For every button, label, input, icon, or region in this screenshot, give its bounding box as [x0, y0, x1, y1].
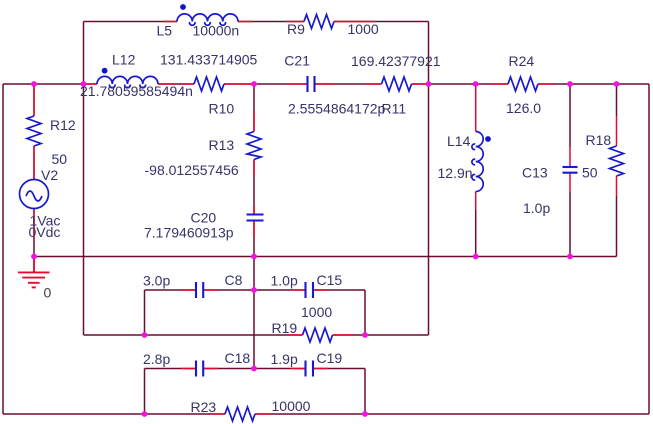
- svg-text:C15: C15: [317, 272, 343, 288]
- junction bottom x144: [142, 411, 148, 417]
- svg-text:131.433714905: 131.433714905: [160, 52, 258, 68]
- svg-text:0: 0: [44, 285, 52, 301]
- ground: [33, 257, 35, 272]
- svg-text:50: 50: [52, 151, 68, 167]
- pin R24 left: [490, 83, 508, 85]
- svg-text:10000: 10000: [272, 398, 311, 414]
- pin C13 top: [569, 147, 571, 167]
- wire C15 branch vertical x365 upper: [364, 290, 366, 335]
- wire C13 branch upper: [569, 84, 571, 147]
- pin L5 right: [238, 21, 253, 23]
- svg-text:L12: L12: [112, 52, 136, 68]
- pin L12 right: [158, 83, 175, 85]
- svg-text:21.78059585494n: 21.78059585494n: [80, 83, 193, 99]
- wire source branch x34 lower: [33, 209, 35, 257]
- pin L12 left: [85, 83, 97, 85]
- wire bottom rail right: [255, 413, 649, 415]
- pin C15 left: [291, 289, 306, 291]
- svg-text:C21: C21: [284, 53, 310, 69]
- junction row B x475: [473, 81, 479, 87]
- svg-text:R9: R9: [287, 21, 305, 37]
- capacitor C15: [304, 282, 306, 298]
- svg-text:R10: R10: [209, 101, 235, 117]
- wire C19 branch vertical x365 lower: [364, 369, 366, 415]
- wire row B seg 2: [158, 83, 194, 85]
- pin R11 right: [412, 83, 429, 85]
- pin C19 right: [313, 368, 328, 370]
- pin C20 top: [253, 206, 255, 215]
- svg-text:7.179460913p: 7.179460913p: [144, 225, 234, 241]
- wire L14 branch lower: [475, 210, 477, 257]
- pin R18 bottom: [616, 176, 618, 196]
- pin C15 right: [313, 289, 328, 291]
- junction C18 row x254: [251, 366, 257, 372]
- wire C18 branch vertical x144 lower: [144, 369, 146, 415]
- pin R23 left: [210, 413, 225, 415]
- wire R18 branch upper: [616, 84, 618, 116]
- junction row B x254: [251, 81, 257, 87]
- svg-text:0Vdc: 0Vdc: [29, 224, 61, 240]
- wire right edge vertical: [648, 84, 650, 414]
- svg-text:50: 50: [582, 165, 598, 181]
- pin C21 left: [288, 83, 308, 85]
- svg-text:R24: R24: [509, 53, 535, 69]
- capacitor C8: [195, 282, 197, 298]
- pin R18 top: [616, 116, 618, 146]
- wire C20 vertical lower: [253, 221, 255, 369]
- capacitor C18: [195, 361, 197, 377]
- inductor L14: [476, 132, 484, 192]
- wire C18 row seg 2: [203, 368, 305, 370]
- wire row B seg 6: [538, 83, 649, 85]
- junction row B x616: [614, 81, 620, 87]
- wire box left vertical x83: [83, 22, 85, 336]
- pin L14 bottom: [475, 192, 477, 211]
- junction mid x254: [251, 254, 257, 260]
- svg-text:1.9p: 1.9p: [271, 351, 298, 367]
- pin R12 bottom to V2: [33, 146, 35, 180]
- capacitor C21: [306, 76, 308, 92]
- wire left edge vertical: [2, 84, 4, 414]
- wire top rail mid segment: [238, 21, 304, 23]
- wire row B seg 4: [315, 83, 382, 85]
- wire top rail left segment: [84, 21, 178, 23]
- capacitor C13: [563, 166, 578, 168]
- pin R19 left: [288, 334, 303, 336]
- junction mid x475: [473, 254, 479, 260]
- svg-text:R18: R18: [586, 132, 612, 148]
- junction R19 row x365: [362, 332, 368, 338]
- pin R24 right: [538, 83, 553, 85]
- wire row B seg 1: [3, 83, 97, 85]
- wire box right vertical x428: [428, 22, 430, 336]
- wire C8 row seg 1: [145, 289, 197, 291]
- pin C20 bottom: [253, 221, 255, 237]
- svg-text:C18: C18: [225, 350, 251, 366]
- junction R19 row x144: [142, 332, 148, 338]
- pin L5 left: [163, 21, 177, 23]
- svg-text:C19: C19: [317, 350, 343, 366]
- dot L12 pin1: [102, 68, 108, 74]
- svg-text:169.42377921: 169.42377921: [351, 53, 441, 69]
- wire C8 row seg 3: [313, 289, 365, 291]
- junction row B x83: [81, 81, 87, 87]
- svg-text:L14: L14: [447, 133, 471, 149]
- svg-text:1000: 1000: [301, 304, 332, 320]
- wire R19 row seg 1: [84, 334, 303, 336]
- wire C8 branch vertical x144 upper: [144, 290, 146, 335]
- pin R10 left: [180, 83, 194, 85]
- pin R11 left: [367, 83, 382, 85]
- junction mid x570: [567, 254, 573, 260]
- svg-text:126.0: 126.0: [506, 100, 541, 116]
- junction mid x34: [31, 254, 37, 260]
- wire mid rail y257: [34, 256, 617, 258]
- pin C19 left: [291, 368, 306, 370]
- pin C21 right: [315, 83, 335, 85]
- wire source branch x34 upper: [33, 84, 35, 116]
- resistor R9: [304, 15, 334, 29]
- pin C8 left: [181, 289, 196, 291]
- wire R13-C20 vertical middle: [253, 160, 255, 215]
- junction row B x428: [426, 81, 432, 87]
- svg-text:C20: C20: [191, 210, 217, 226]
- wire top rail right segment: [334, 21, 429, 23]
- resistor R11: [382, 77, 412, 91]
- svg-text:R13: R13: [209, 137, 235, 153]
- pin R19 right: [333, 334, 354, 336]
- junction bottom x365: [362, 411, 368, 417]
- resistor R12: [27, 116, 41, 146]
- resistor R19: [303, 328, 333, 342]
- svg-text:12.9n: 12.9n: [438, 165, 473, 181]
- wire R18 branch lower: [616, 196, 618, 257]
- pin R9 right: [334, 21, 375, 23]
- svg-text:C13: C13: [522, 165, 548, 181]
- resistor R23: [225, 407, 255, 421]
- pin R12 top: [33, 85, 35, 116]
- svg-text:-98.012557456: -98.012557456: [145, 162, 239, 178]
- resistor R13: [247, 132, 261, 160]
- svg-text:10000n: 10000n: [193, 23, 240, 39]
- dot L14 pin1: [485, 136, 491, 142]
- pin L14 top: [475, 84, 477, 132]
- inductor L12: [97, 76, 158, 84]
- inductor L5: [177, 14, 238, 22]
- pin R13 bottom: [253, 160, 255, 177]
- junction row B x34: [31, 81, 37, 87]
- dot L5 pin1: [180, 4, 186, 10]
- wire row B seg 5: [412, 83, 509, 85]
- pin C18 right: [203, 368, 218, 370]
- wire C18 row seg 3: [313, 368, 365, 370]
- svg-text:1.0p: 1.0p: [523, 200, 550, 216]
- capacitor C20: [247, 213, 264, 215]
- wire C8 row seg 2: [203, 289, 305, 291]
- wire C18 row seg 1: [145, 368, 197, 370]
- junction C8 row x254: [251, 287, 257, 293]
- wire row B seg 3: [224, 83, 308, 85]
- pin C13 bottom: [569, 173, 571, 192]
- pin C8 right: [203, 289, 218, 291]
- svg-text:1000: 1000: [348, 21, 379, 37]
- svg-text:R23: R23: [191, 399, 217, 415]
- pin R9 left: [286, 21, 304, 23]
- svg-text:R19: R19: [272, 320, 298, 336]
- wire C13 branch lower: [569, 192, 571, 257]
- svg-text:L5: L5: [157, 23, 173, 39]
- wire R13 branch vertical upper: [253, 84, 255, 132]
- pin R23 right: [255, 413, 270, 415]
- svg-text:2.5554864172p: 2.5554864172p: [288, 101, 386, 117]
- capacitor C19: [304, 361, 306, 377]
- resistor R24: [508, 77, 538, 91]
- source V2: [20, 180, 49, 209]
- svg-text:C8: C8: [225, 272, 243, 288]
- svg-text:R11: R11: [382, 101, 407, 117]
- pin R13 top: [253, 111, 255, 132]
- svg-text:R12: R12: [50, 117, 76, 133]
- junction row B x570: [567, 81, 573, 87]
- pin V2 bottom: [33, 209, 35, 239]
- wire bottom rail left: [3, 413, 225, 415]
- wire source branch x34 mid: [33, 146, 35, 180]
- pin R10 right: [224, 83, 254, 85]
- wire R19 row seg 2: [333, 334, 429, 336]
- svg-text:2.8p: 2.8p: [143, 351, 170, 367]
- svg-text:1.0p: 1.0p: [271, 273, 298, 289]
- resistor R10: [194, 77, 224, 91]
- pin C18 left: [181, 368, 196, 370]
- resistor R18: [610, 146, 624, 176]
- svg-text:V2: V2: [41, 167, 58, 183]
- svg-text:3.0p: 3.0p: [143, 273, 170, 289]
